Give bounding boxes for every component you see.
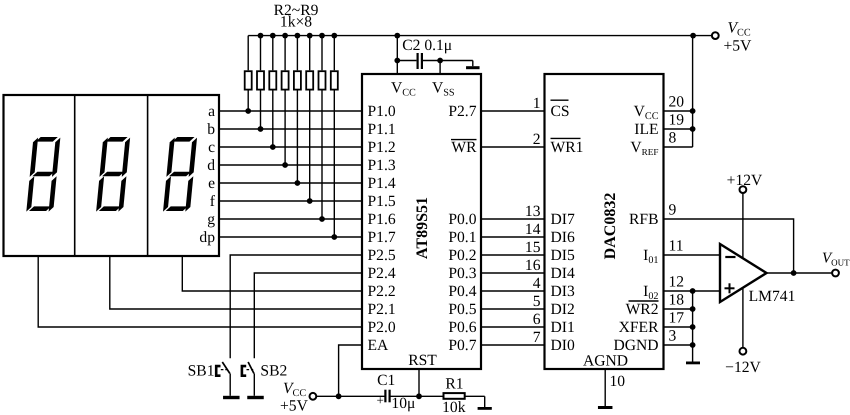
svg-text:R1: R1 (445, 375, 463, 392)
svg-text:AGND: AGND (583, 353, 628, 370)
ground (C2/Vss) (472, 61, 474, 67)
wire U1 to U2, pin 1 (481, 110, 545, 112)
svg-text:DI5: DI5 (551, 247, 575, 264)
svg-text:−12V: −12V (725, 359, 761, 376)
svg-text:P1.6: P1.6 (368, 211, 396, 228)
svg-text:EA: EA (368, 337, 390, 354)
svg-text:DI7: DI7 (551, 211, 575, 228)
svg-text:P2.7: P2.7 (448, 103, 476, 120)
svg-text:DI0: DI0 (551, 337, 575, 354)
+12V terminal (740, 186, 747, 193)
svg-text:AT89S51: AT89S51 (414, 197, 431, 259)
svg-text:10μ: 10μ (391, 395, 415, 412)
svg-text:P2.4: P2.4 (368, 265, 396, 282)
capacitor C1 10µ electrolytic (377, 372, 416, 412)
resistor R2 (1k) (245, 36, 252, 111)
wire Vcc pin of U1 from rail (396, 36, 398, 74)
wire EA pull-up (336, 393, 342, 399)
op-amp U3 LM741 (720, 244, 767, 302)
svg-text:13: 13 (525, 203, 541, 220)
pushbutton SB2 (242, 362, 287, 396)
svg-text:+12V: +12V (727, 172, 763, 189)
wire U1 to U2, pin 7 (481, 344, 545, 346)
ground (digital pins) (692, 291, 694, 362)
wire I02 pin 12 to op-amp non-inverting input (664, 290, 721, 292)
svg-text:P1.3: P1.3 (368, 157, 396, 174)
svg-text:1: 1 (533, 95, 541, 112)
svg-text:P0.2: P0.2 (448, 247, 476, 264)
svg-text:P0.5: P0.5 (448, 301, 476, 318)
svg-text:P1.2: P1.2 (368, 139, 396, 156)
svg-text:2: 2 (533, 131, 541, 148)
svg-text:14: 14 (525, 221, 541, 238)
svg-text:5: 5 (533, 293, 541, 310)
svg-text:RST: RST (408, 352, 437, 369)
svg-text:P0.3: P0.3 (448, 265, 476, 282)
resistor R3 (1k) (257, 33, 264, 129)
svg-text:WR1: WR1 (551, 139, 584, 156)
junction: rail to DAC supply pins (690, 33, 696, 39)
Vcc +5V terminal (top right) (712, 32, 719, 39)
wire U1 to U2, pin 16 (481, 272, 545, 274)
digit 1 (7-segment figure 8) (26, 137, 60, 212)
svg-text:16: 16 (525, 257, 541, 274)
svg-text:DI3: DI3 (551, 283, 575, 300)
svg-text:P0.6: P0.6 (448, 319, 476, 336)
svg-text:12: 12 (669, 274, 685, 291)
svg-text:dp: dp (199, 229, 215, 246)
svg-text:f: f (210, 193, 216, 210)
svg-text:P2.1: P2.1 (368, 301, 396, 318)
wire U1 to U2, pin 2 (481, 146, 545, 148)
svg-text:P0.4: P0.4 (448, 283, 476, 300)
svg-text:+5V: +5V (724, 38, 753, 55)
wire P2.4 to SB2 (254, 273, 362, 358)
Vcc +5V supply rail (248, 35, 712, 37)
svg-text:P2.5: P2.5 (368, 247, 396, 264)
wire P2.5 to SB1 (230, 255, 362, 358)
svg-text:10: 10 (610, 373, 626, 390)
wire U1 to U2, pin 4 (481, 290, 545, 292)
wire U1 to U2, pin 14 (481, 236, 545, 238)
wire op-amp output to Vout (767, 272, 832, 274)
svg-text:LM741: LM741 (749, 288, 796, 305)
svg-text:18: 18 (669, 292, 685, 309)
svg-text:d: d (207, 157, 215, 174)
svg-text:g: g (207, 211, 215, 228)
svg-text:a: a (208, 103, 215, 120)
digit 3 (7-segment figure 8) (163, 137, 197, 212)
wire Vss pin of U1 (437, 58, 443, 64)
wire supply drop to pins 20/19/8 (692, 36, 694, 147)
svg-text:9: 9 (669, 202, 677, 219)
svg-text:SB1: SB1 (188, 362, 215, 379)
svg-text:ILE: ILE (634, 121, 658, 138)
svg-text:WR: WR (451, 139, 477, 156)
wire display digit-3 common to P2.2 (182, 256, 362, 291)
svg-text:DGND: DGND (613, 337, 658, 354)
svg-text:15: 15 (525, 239, 541, 256)
svg-text:SB2: SB2 (260, 362, 287, 379)
resistor R7 (1k) (306, 33, 313, 201)
wire display digit-2 common to P2.1 (110, 256, 362, 309)
wire op-amp supply +12V/-12V (742, 193, 744, 348)
IC U2 DAC0832 (545, 74, 664, 369)
svg-text:e: e (208, 175, 215, 192)
svg-text:10k: 10k (442, 399, 466, 415)
wire +5V line (317, 395, 386, 397)
ground (SB1) (223, 396, 240, 399)
svg-text:b: b (207, 121, 215, 138)
svg-text:P0.7: P0.7 (448, 337, 476, 354)
svg-text:P2.0: P2.0 (368, 319, 396, 336)
svg-text:C2 0.1μ: C2 0.1μ (402, 37, 452, 54)
svg-text:11: 11 (669, 238, 684, 255)
Vcc +5V terminal (bottom) (310, 393, 317, 400)
resistor R9 (1k) (331, 33, 338, 237)
resistor R8 (1k) (319, 33, 326, 219)
svg-text:DI1: DI1 (551, 319, 575, 336)
wire U2 pin 19 (664, 128, 693, 130)
pushbutton SB1 (188, 362, 231, 396)
svg-text:4: 4 (533, 275, 541, 292)
resistor R4 (1k) (269, 33, 276, 147)
wire U1 to U2, pin 5 (481, 308, 545, 310)
ground (R1) (484, 396, 486, 407)
wire RFB pin 9 feedback (664, 219, 794, 273)
wire U2 pin 17 (664, 326, 693, 328)
svg-text:20: 20 (669, 94, 685, 111)
svg-text:P1.7: P1.7 (368, 229, 396, 246)
Vout terminal (832, 270, 839, 277)
svg-text:17: 17 (669, 310, 685, 327)
svg-text:XFER: XFER (619, 319, 659, 336)
svg-text:DAC0832: DAC0832 (602, 193, 619, 260)
svg-text:P0.1: P0.1 (448, 229, 476, 246)
svg-text:DI4: DI4 (551, 265, 575, 282)
resistor R5 (1k) (282, 33, 289, 165)
resistor R6 (1k) (294, 33, 301, 183)
svg-text:WR2: WR2 (626, 301, 659, 318)
digit 2 (7-segment figure 8) (96, 137, 130, 212)
svg-text:P1.4: P1.4 (368, 175, 396, 192)
svg-text:c: c (208, 139, 215, 156)
svg-text:P2.2: P2.2 (368, 283, 396, 300)
svg-text:P1.1: P1.1 (368, 121, 396, 138)
wire U1 to U2, pin 6 (481, 326, 545, 328)
svg-text:8: 8 (669, 130, 677, 147)
IC U1 AT89S51 (362, 74, 481, 369)
wire U1 to U2, pin 15 (481, 254, 545, 256)
svg-text:+: + (377, 393, 384, 408)
-12V terminal (740, 348, 747, 355)
display DS1 (3-digit 7-segment module) (4, 95, 220, 256)
ground (SB2) (247, 396, 264, 399)
svg-text:+5V: +5V (280, 398, 309, 415)
svg-text:P1.0: P1.0 (368, 103, 396, 120)
svg-text:6: 6 (533, 311, 541, 328)
resistor R1 10k (442, 375, 466, 415)
wire RST to C1/R1 node (416, 393, 422, 399)
wire I01 pin 11 to op-amp inverting input (664, 254, 721, 256)
wire AGND pin 10 (604, 369, 606, 406)
svg-text:DI6: DI6 (551, 229, 575, 246)
wire U2 pin 20 (664, 110, 693, 112)
svg-text:DI2: DI2 (551, 301, 575, 318)
svg-text:CS: CS (551, 103, 570, 120)
svg-text:3: 3 (669, 328, 677, 345)
wire U2 pin 8 (664, 146, 693, 148)
svg-text:P1.5: P1.5 (368, 193, 396, 210)
wire U2 pin 3 (664, 344, 693, 346)
wire U1 to U2, pin 13 (481, 218, 545, 220)
svg-text:1k×8: 1k×8 (280, 14, 312, 31)
wire U2 pin 18 (664, 308, 693, 310)
svg-text:RFB: RFB (629, 211, 658, 228)
svg-text:7: 7 (533, 329, 541, 346)
svg-text:P0.0: P0.0 (448, 211, 476, 228)
capacitor C2 0.1µ (397, 37, 473, 69)
wire display digit-1 common to P2.0 (38, 256, 362, 327)
svg-text:19: 19 (669, 112, 685, 129)
svg-text:C1: C1 (377, 372, 395, 389)
ground (AGND) (598, 406, 613, 409)
